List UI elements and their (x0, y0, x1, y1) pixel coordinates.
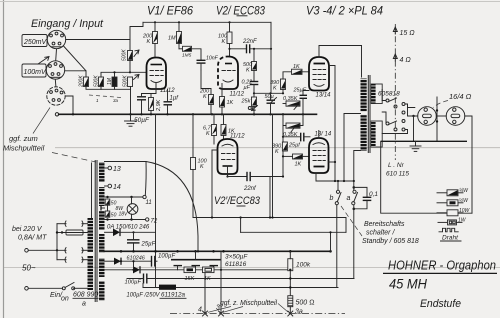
DIN socket J2 (46, 61, 64, 79)
fold line A (55, 147, 500, 149)
wire J1 to pot (66, 40, 130, 51)
svg-text:11/12: 11/12 (230, 134, 245, 140)
svg-text:16/4 Ω: 16/4 Ω (449, 92, 472, 101)
legend r 10W (437, 212, 447, 214)
svg-text:Draht: Draht (442, 235, 459, 242)
tube V2a ECC83 (223, 57, 238, 90)
cap 22nF out (228, 176, 248, 178)
long vertical x155.5 (155, 114, 157, 287)
svg-text:schalter /: schalter / (366, 230, 395, 237)
svg-text:1µf: 1µf (170, 96, 180, 102)
DIN socket J3 (optional, dashed) (47, 87, 65, 105)
resistor 500K input (99, 77, 104, 87)
svg-text:3a: 3a (295, 309, 303, 316)
resistor 15K (184, 267, 196, 273)
svg-text:3×50µF: 3×50µF (225, 254, 248, 261)
resistor 100K V2 grid (229, 22, 231, 32)
arrow 4 Ohm (393, 54, 397, 61)
svg-text:25µF: 25µF (141, 241, 156, 247)
svg-text:13/ 14: 13/ 14 (315, 132, 332, 138)
svg-text:11/12: 11/12 (230, 92, 245, 98)
svg-text:Eingang / Input: Eingang / Input (31, 18, 104, 30)
pilot lamp (127, 204, 138, 215)
svg-text:1M: 1M (168, 36, 176, 42)
svg-text:K: K (273, 86, 277, 92)
resistor 6,7K (213, 114, 215, 124)
fold line B (4, 266, 500, 268)
resistor 2,9K (149, 98, 154, 111)
svg-text:50~: 50~ (22, 264, 36, 273)
svg-text:250mV: 250mV (23, 39, 48, 46)
ground symbol + 50uF (130, 114, 132, 121)
node wire y93 (254, 92, 283, 94)
svg-text:µF: µF (244, 85, 251, 91)
resistor 1K filter (203, 267, 215, 273)
resistor 100K feedback (192, 114, 194, 157)
svg-text:1K: 1K (227, 100, 234, 106)
svg-text:1W: 1W (458, 218, 467, 224)
resistor 1K cathode V2a (221, 84, 223, 97)
svg-text:11: 11 (146, 200, 152, 206)
speaker socket A (418, 107, 437, 126)
svg-text:72: 72 (151, 219, 158, 225)
terminal 14 (105, 185, 109, 187)
tube V2b ECC83 (218, 139, 238, 174)
wire between sockets (436, 115, 446, 117)
node dots a (353, 186, 356, 189)
arrow at 100mV (38, 57, 49, 65)
svg-text:25k: 25k (241, 99, 251, 105)
grid wire PL84a (283, 72, 309, 79)
speaker return bus (381, 140, 467, 142)
svg-text:100µF: 100µF (158, 254, 175, 260)
svg-text:1M5: 1M5 (182, 53, 192, 59)
wire DIN1-DIN2 chain (55, 49, 58, 61)
diode third (105, 269, 134, 271)
svg-text:on: on (61, 296, 69, 303)
svg-text:610246: 610246 (127, 256, 146, 262)
T2 primary winding (361, 79, 367, 112)
diode 610246 (105, 260, 115, 262)
resistor 200K V2 grid leak (201, 70, 211, 95)
svg-text:50µF: 50µF (134, 117, 150, 124)
legend r halfW (437, 202, 447, 204)
screen wire PL84a (319, 46, 362, 58)
anode wire PL84b (329, 161, 336, 163)
svg-text:¼W: ¼W (459, 188, 469, 194)
tube V1 EF86 (147, 58, 167, 90)
svg-text:611912a: 611912a (161, 292, 185, 299)
pot 0,35K hum B (286, 123, 300, 128)
standby label leader (341, 206, 362, 236)
svg-text:22nF: 22nF (242, 39, 257, 45)
resistor 50 a (105, 199, 110, 205)
svg-text:25µf: 25µf (288, 143, 300, 149)
svg-text:½W: ½W (459, 197, 469, 204)
primary tap pair 1 (65, 221, 66, 226)
svg-text:605818: 605818 (378, 91, 400, 98)
cap 1uF (164, 101, 173, 103)
svg-text:Standby / 605 818: Standby / 605 818 (362, 238, 419, 245)
bottom wire to switch (316, 173, 354, 181)
switch contacts 605818 (386, 99, 389, 102)
svg-text:V2′/ECC83: V2′/ECC83 (214, 195, 261, 207)
standby feed vertical (330, 232, 332, 251)
svg-text:13/14: 13/14 (316, 93, 332, 99)
svg-text:25µF: 25µF (293, 88, 307, 94)
input box 100mV (22, 64, 46, 77)
legend r quarterW (437, 192, 447, 194)
resistor 1K (223, 114, 225, 124)
input box 250mV (22, 35, 47, 47)
pilot lamp winding wires (105, 196, 144, 198)
svg-text:K: K (206, 131, 210, 137)
svg-text:0,8A/ MT: 0,8A/ MT (18, 235, 47, 242)
node to ground cap (130, 87, 132, 115)
pot 25K (252, 97, 257, 107)
wire tube2 top (318, 131, 320, 139)
svg-text:ggf. zum: ggf. zum (9, 134, 38, 143)
cap 25uF cathode PL84a (300, 94, 308, 96)
wire J3 right to node (65, 96, 73, 114)
T1 secondary windings (99, 162, 105, 182)
svg-text:L . Nr: L . Nr (388, 162, 405, 169)
DIN socket J1 (47, 30, 65, 48)
svg-text:a: a (347, 195, 351, 202)
svg-text:ggf. z. Mischpultteil: ggf. z. Mischpultteil (220, 300, 277, 307)
label ggf. zum Mischpultteil (33, 108, 50, 134)
diode OA150 (105, 231, 114, 233)
scan edge left (3, 0, 5, 318)
svg-text:2,9K: 2,9K (156, 99, 162, 112)
svg-text:10nF: 10nF (206, 56, 219, 62)
ground symbol speakers (415, 141, 417, 146)
mid tap mark (101, 207, 105, 209)
dash-dot speaker select line (394, 24, 396, 160)
svg-text:Bereitschafts: Bereitschafts (364, 221, 405, 228)
svg-text:18V: 18V (119, 212, 129, 218)
legend Draht coil (439, 228, 458, 232)
svg-text:10W: 10W (459, 208, 471, 214)
NTC 611912a (143, 287, 159, 289)
resistor 50 b (105, 211, 110, 217)
svg-text:14: 14 (113, 184, 121, 191)
wire socket B right (465, 116, 472, 213)
anode wire PL84a (329, 66, 335, 182)
primary tap pair 2 (65, 248, 66, 253)
svg-text:bei 220 V: bei 220 V (12, 226, 43, 233)
svg-text:50: 50 (111, 213, 117, 219)
cap 0,22uF (253, 71, 255, 82)
pot 500K A (128, 51, 133, 61)
cap 25uF cathode V1 (137, 96, 146, 98)
svg-text:K: K (222, 39, 226, 45)
svg-text:15K: 15K (185, 276, 195, 282)
cap 0,1 (354, 187, 367, 197)
wire y232 (240, 218, 242, 233)
bottom dash-dot line (170, 312, 345, 314)
wire J2 to divider (65, 71, 86, 77)
svg-text:Endstufe: Endstufe (420, 298, 461, 310)
terminal 13 (105, 167, 109, 169)
resistor 1K grid stopper (292, 69, 303, 74)
wire divider tops (101, 72, 147, 77)
svg-text:b: b (330, 195, 334, 202)
svg-text:K: K (147, 39, 151, 45)
svg-text:K: K (246, 68, 250, 74)
svg-text:22nf: 22nf (243, 186, 257, 192)
svg-text:45 MH: 45 MH (389, 277, 427, 292)
svg-text:V3 -4/ 2 ×PL 84: V3 -4/ 2 ×PL 84 (306, 4, 383, 18)
svg-text:0,35K: 0,35K (283, 96, 298, 102)
wire b drop (337, 181, 339, 190)
svg-text:K: K (275, 149, 279, 155)
dashed pin line (89, 95, 121, 98)
vertical junction wire (436, 97, 438, 141)
svg-text:500K: 500K (122, 49, 128, 61)
cap 22nF coupling (228, 48, 230, 50)
cap 25uf cathode PL84b (300, 133, 302, 142)
ground bus (59, 113, 317, 115)
svg-text:V1/ EF86: V1/ EF86 (147, 4, 193, 18)
resistor 1M5 (179, 48, 183, 50)
cap 25uF reservoir (127, 239, 140, 241)
fuse (66, 230, 83, 235)
transformer screen line (91, 163, 93, 218)
rail drop right (270, 22, 272, 93)
wire J3 ground (55, 113, 58, 116)
terminal 72 (146, 218, 149, 221)
smoothing cap 3x50uF bar (171, 259, 221, 261)
svg-text:611816: 611816 (225, 261, 247, 268)
svg-text:50µ: 50µ (265, 94, 274, 100)
mains terminal L (25, 249, 29, 253)
svg-text:a: a (82, 301, 86, 308)
resistor 390K grid PL84b (282, 142, 287, 151)
T1 primary winding (88, 218, 94, 252)
mains terminal N + switch (25, 287, 29, 291)
speaker socket B (446, 107, 465, 126)
svg-text:200K: 200K (79, 75, 85, 88)
arrow 15 Ohm (393, 27, 397, 34)
svg-text:13: 13 (113, 166, 121, 173)
svg-text:500 Ω: 500 Ω (296, 300, 315, 307)
terminal 11 (143, 195, 146, 198)
heater wire from transformer top (105, 161, 147, 163)
legend r 1W (438, 221, 448, 223)
svg-text:0,1: 0,1 (369, 191, 378, 198)
wire 22nF down (269, 177, 271, 218)
cathode parts V1 (151, 84, 156, 98)
B+ rail V1/V2 (143, 21, 271, 23)
power transformer T1 core (94, 160, 96, 302)
svg-text:100mV: 100mV (24, 69, 48, 76)
svg-text:1K: 1K (293, 64, 300, 70)
svg-text:610 115: 610 115 (386, 171, 409, 178)
svg-text:K: K (203, 94, 207, 100)
resistor 500K (253, 49, 255, 62)
svg-text:15 Ω: 15 Ω (400, 30, 416, 37)
resistor 1K cathode PL84b (293, 154, 303, 159)
vertical x133 (133, 261, 135, 270)
cap 100uF a (151, 256, 153, 267)
resistor 500 Ohm wirewound (288, 296, 293, 307)
T2 primary feeds (354, 151, 361, 182)
resistor 1M anode (178, 22, 180, 31)
resistor 1M input (112, 77, 117, 87)
pot 500K B (128, 77, 133, 87)
svg-text:100µF /250V: 100µF /250V (127, 292, 161, 299)
svg-text:500K: 500K (94, 75, 100, 87)
svg-text:100µF: 100µF (125, 280, 142, 286)
cathode stem V2b (227, 166, 229, 177)
x marks (203, 311, 208, 316)
scan edge top (0, 1, 500, 3)
cap 10nF (192, 49, 202, 61)
svg-text:500K: 500K (123, 75, 129, 87)
svg-text:Mischpultteil: Mischpultteil (3, 144, 45, 153)
svg-text:4 Ω: 4 Ω (400, 57, 412, 64)
vertical x143 (142, 284, 144, 288)
svg-text:608 990: 608 990 (73, 292, 98, 299)
output transformer T2 core (367, 75, 369, 153)
wire drops to bottom (204, 273, 206, 314)
svg-text:K: K (200, 164, 204, 170)
resistor 200K screen (154, 22, 156, 31)
svg-text:HOHNER - Orgaphon: HOHNER - Orgaphon (388, 258, 496, 273)
resistor 100K bleeder (288, 259, 293, 271)
svg-text:1K: 1K (295, 162, 302, 168)
cap plates 3x50uF (174, 265, 183, 267)
tube V4 PL84 (309, 138, 329, 173)
wire DIN1 diag to divider (64, 46, 87, 71)
resistor 390K grid PL84a (281, 79, 286, 90)
svg-text:100k: 100k (296, 262, 311, 269)
T2 secondary winding (371, 84, 382, 104)
svg-text:1M: 1M (107, 77, 113, 85)
B+ bus (105, 250, 331, 252)
primary tap pair 3 (65, 257, 66, 262)
resistor 200K input (84, 77, 89, 87)
tube V3 PL84 (309, 57, 329, 91)
pot 0,35K hum A (286, 101, 300, 106)
long vertical x272.5 (272, 114, 274, 217)
svg-text:4: 4 (198, 307, 202, 314)
long wire y217.5 (193, 218, 346, 233)
grid drop V2b (212, 149, 218, 151)
svg-text:3a: 3a (113, 98, 119, 103)
cap 50u + arrow (267, 99, 276, 101)
wire switch to socket A (405, 104, 418, 116)
heater wire curve (146, 162, 198, 252)
wire divider bottoms (86, 87, 131, 90)
